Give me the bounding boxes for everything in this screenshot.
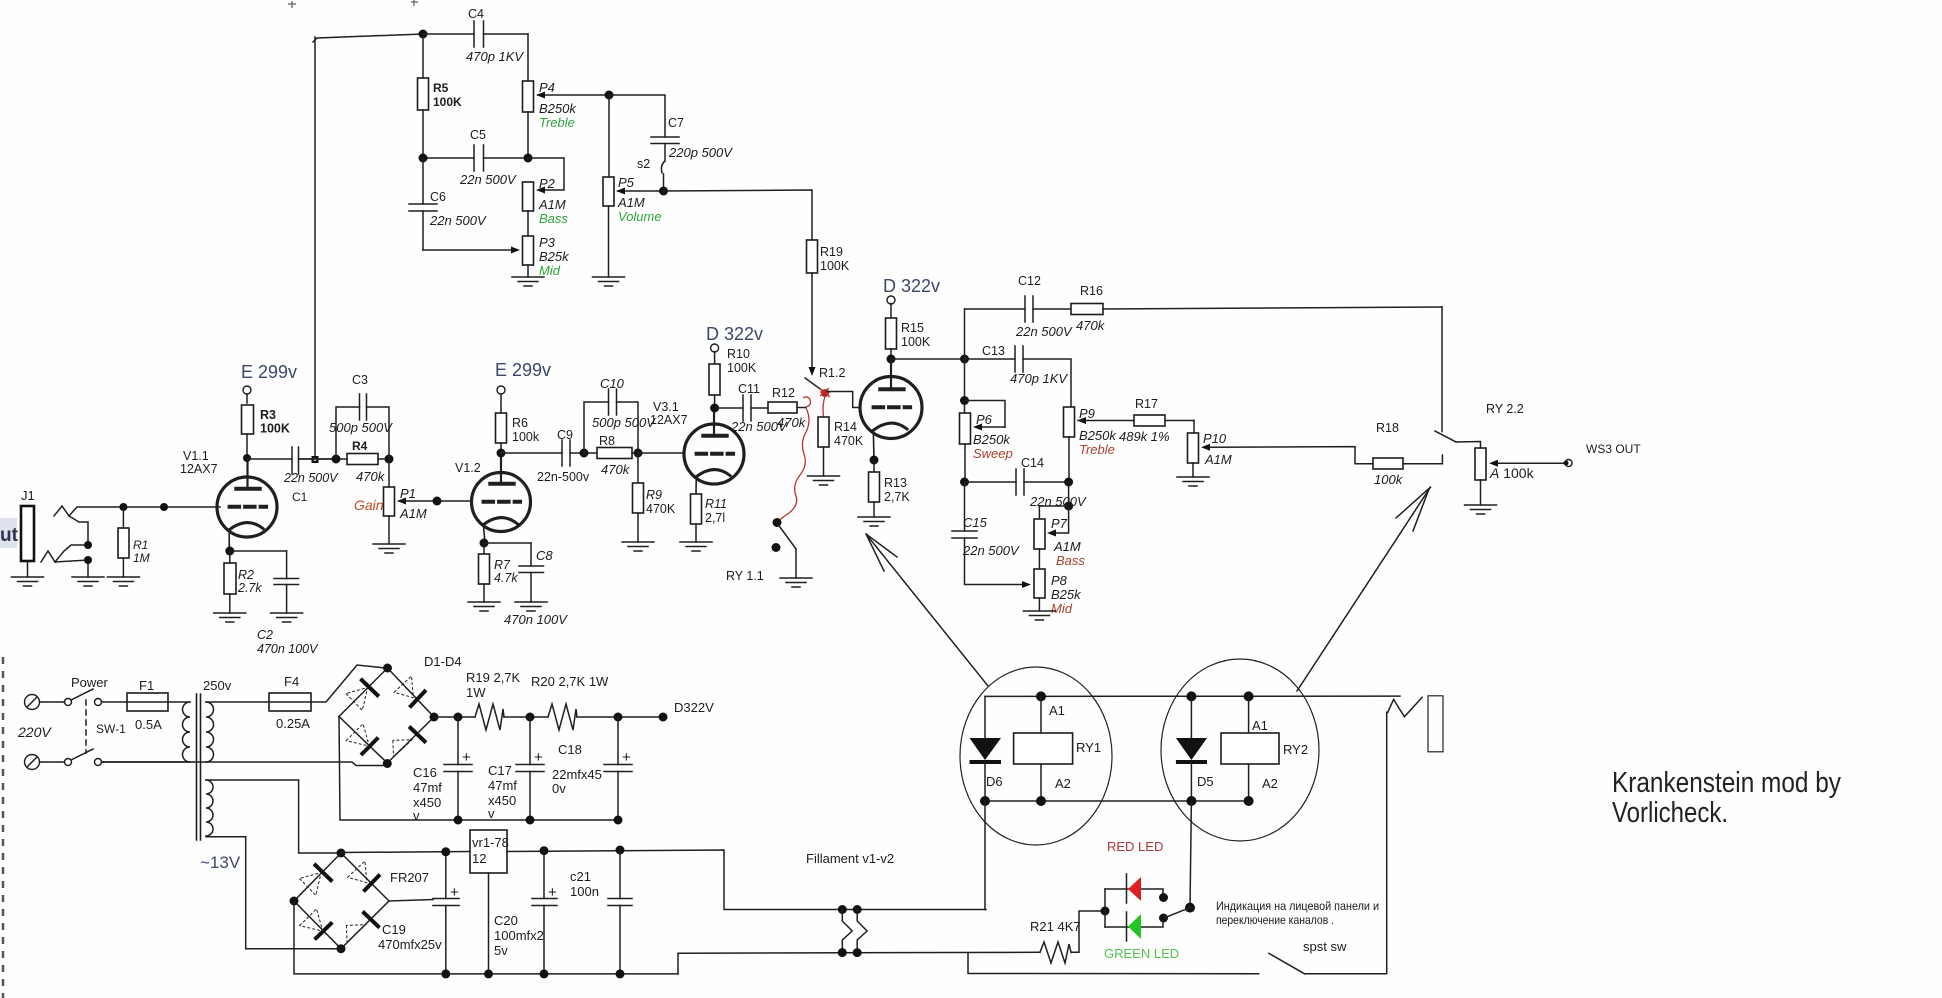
ground under P8 xyxy=(1023,611,1055,620)
svg-text:R13: R13 xyxy=(884,476,907,490)
wire D5 drop to led switch xyxy=(1190,801,1191,908)
svg-text:5v: 5v xyxy=(494,943,508,958)
node RY1 coil bottom xyxy=(1036,796,1046,806)
svg-text:+: + xyxy=(622,749,631,766)
node FR207 top xyxy=(337,849,346,858)
annotation arrow to RY2.2 xyxy=(1297,487,1430,691)
node R4 right xyxy=(385,455,394,464)
wire mains return to bridge xyxy=(102,762,385,766)
connector filament left xyxy=(838,905,852,957)
svg-text:P7: P7 xyxy=(1051,516,1068,531)
triode V3.1 xyxy=(684,408,744,494)
title Krankenstein xyxy=(1612,767,1841,829)
annotation arrow to V2.1 xyxy=(866,534,988,686)
svg-text:B25k: B25k xyxy=(539,249,570,264)
terminal D322v V3.1 xyxy=(711,344,719,364)
svg-text:B25k: B25k xyxy=(1051,587,1082,602)
node D6 bottom xyxy=(980,796,990,806)
node C14 right xyxy=(1064,478,1073,487)
svg-text:P6: P6 xyxy=(976,412,993,427)
ground under R14 xyxy=(808,476,840,485)
node P5 top xyxy=(605,91,614,100)
svg-text:F4: F4 xyxy=(284,674,299,689)
svg-text:Power: Power xyxy=(71,675,109,690)
label V1.1 12AX7 xyxy=(180,449,218,476)
ground under R9 xyxy=(622,542,654,551)
wire C1 to R4 xyxy=(299,458,348,460)
ground under A100k xyxy=(1465,505,1497,514)
resistor R10 xyxy=(709,347,757,408)
ellipse RY2 xyxy=(1161,659,1319,841)
wire R19 to switch xyxy=(809,273,816,376)
node C19 top xyxy=(441,847,450,856)
resistor R19 2,7K zigzag xyxy=(466,670,548,730)
svg-text:spst sw: spst sw xyxy=(1303,939,1347,954)
svg-text:C5: C5 xyxy=(470,128,486,142)
wire mid vertical xyxy=(964,309,966,413)
led RED xyxy=(1127,874,1142,903)
node C20 top xyxy=(540,846,549,855)
svg-text:Bass: Bass xyxy=(1056,553,1085,568)
ellipse RY1 xyxy=(960,667,1112,845)
node P7 branch xyxy=(1064,502,1073,511)
node bridge bottom xyxy=(383,759,392,768)
ground under C8 xyxy=(515,602,547,611)
svg-text:V3.1: V3.1 xyxy=(653,400,679,414)
svg-text:P4: P4 xyxy=(539,80,555,95)
switch s2 xyxy=(637,157,665,191)
wire 13v dc rail xyxy=(341,852,470,853)
svg-text:WS3 OUT: WS3 OUT xyxy=(1586,442,1641,456)
diode D6 xyxy=(970,696,1003,801)
svg-text:C17: C17 xyxy=(488,763,512,778)
svg-text:47mf: 47mf xyxy=(413,780,442,795)
svg-text:P8: P8 xyxy=(1051,573,1068,588)
ground under R11 xyxy=(680,542,712,551)
node C17 bottom xyxy=(526,816,535,825)
resistor R8 xyxy=(584,434,638,477)
svg-text:+: + xyxy=(534,749,543,766)
terminal WS3 OUT xyxy=(1564,442,1642,467)
diode FR207 a (top-left) xyxy=(300,864,333,896)
wire volume to R19 xyxy=(664,190,813,240)
ground under P10 xyxy=(1177,477,1209,486)
svg-text:D5: D5 xyxy=(1197,774,1214,789)
node C5 right xyxy=(524,154,533,163)
wire switch to V2.1 grid xyxy=(827,392,860,408)
resistor R13 xyxy=(869,460,911,517)
node FR207 left xyxy=(290,897,299,906)
svg-text:R4: R4 xyxy=(352,439,368,453)
capacitor C5 xyxy=(423,128,528,187)
node grid wire xyxy=(160,503,168,511)
node C4 left xyxy=(419,30,428,39)
resistor R6 xyxy=(496,413,540,453)
svg-text:C7: C7 xyxy=(668,116,684,130)
svg-text:Volume: Volume xyxy=(618,209,662,224)
ground under R7 xyxy=(468,602,500,611)
potentiometer P5 xyxy=(603,175,664,277)
wire relay top rail xyxy=(985,695,1400,697)
svg-text:C9: C9 xyxy=(557,428,573,442)
node volume out xyxy=(659,187,668,196)
page edge dashes xyxy=(2,657,5,998)
capacitor C9 xyxy=(501,428,590,484)
svg-text:A1M: A1M xyxy=(399,506,427,521)
svg-text:ut: ut xyxy=(0,525,19,546)
wire bridge minus down xyxy=(339,717,618,821)
node R4 left xyxy=(332,455,341,464)
node RY1 coil top xyxy=(1036,691,1046,701)
capacitor C17 xyxy=(488,717,544,821)
node C20 bottom xyxy=(540,969,549,978)
node V1.1 anode xyxy=(243,454,251,462)
red link to R14 xyxy=(823,396,825,417)
node RY2 coil bottom xyxy=(1244,796,1254,806)
jack J1 xyxy=(21,488,35,577)
wire 13v top lead xyxy=(206,780,339,853)
svg-text:P3: P3 xyxy=(539,235,556,250)
svg-text:C18: C18 xyxy=(558,742,582,757)
svg-text:C3: C3 xyxy=(352,373,368,387)
diode D1 (top-left) xyxy=(346,679,379,711)
node FR207 bottom xyxy=(337,944,346,953)
svg-text:P1: P1 xyxy=(400,486,416,501)
svg-text:470p 1KV: 470p 1KV xyxy=(1010,371,1068,386)
svg-text:Fillament v1-v2: Fillament v1-v2 xyxy=(806,851,894,866)
node bridge plus xyxy=(430,713,439,722)
svg-text:C2: C2 xyxy=(257,628,273,642)
svg-text:470k: 470k xyxy=(777,415,807,430)
svg-text:A2: A2 xyxy=(1055,776,1071,791)
resistor R18 xyxy=(1373,421,1442,487)
terminal D322v V2.1 xyxy=(887,296,895,318)
switch RY1.1 xyxy=(726,518,796,583)
svg-text:R2: R2 xyxy=(238,568,254,582)
svg-text:V1.1: V1.1 xyxy=(183,449,209,463)
jack sleeve contact xyxy=(41,545,88,577)
svg-text:0.25A: 0.25A xyxy=(276,716,310,731)
terminal E299v V1.1 xyxy=(243,386,251,403)
svg-text:c21: c21 xyxy=(570,869,591,884)
svg-text:470K: 470K xyxy=(834,434,864,448)
transformer secondary 250v winding xyxy=(206,702,214,762)
svg-text:FR207: FR207 xyxy=(390,870,429,885)
capacitor C16 xyxy=(413,717,472,823)
svg-text:22n 500V: 22n 500V xyxy=(283,471,339,485)
switch SW-1 bottom xyxy=(65,749,191,766)
diode FR207 c (bottom-left) xyxy=(300,909,333,940)
jack tip contact xyxy=(54,506,123,545)
ground under R2 xyxy=(214,613,246,622)
svg-text:47mf: 47mf xyxy=(488,778,517,793)
potentiometer P2 xyxy=(523,158,569,226)
svg-text:+: + xyxy=(548,884,557,901)
svg-text:v: v xyxy=(488,806,495,821)
led GREEN xyxy=(1127,912,1142,941)
resistor R17 xyxy=(1078,397,1194,444)
svg-text:C8: C8 xyxy=(536,548,553,563)
svg-text:500p 500V: 500p 500V xyxy=(329,420,393,435)
terminal mains L xyxy=(25,695,65,710)
diode D4 (bottom-right) xyxy=(393,727,426,758)
switch R1.2 arm xyxy=(805,378,823,391)
capacitor C20 xyxy=(494,851,557,974)
svg-text:C1: C1 xyxy=(292,490,308,504)
wire feedback vertical xyxy=(314,37,316,456)
svg-text:R19: R19 xyxy=(820,245,843,259)
resistor R1 xyxy=(118,507,150,577)
switch spst xyxy=(1269,712,1387,974)
capacitor C4 xyxy=(423,7,528,64)
node C16 top xyxy=(454,713,463,722)
wire RY1 rail drop xyxy=(984,801,986,910)
svg-text:470n 100V: 470n 100V xyxy=(504,612,568,627)
svg-text:470mfx25v: 470mfx25v xyxy=(378,937,442,952)
capacitor C6 xyxy=(409,158,487,250)
ground under jack contacts xyxy=(72,577,104,586)
diode D5 xyxy=(1176,696,1214,801)
svg-text:J1: J1 xyxy=(21,488,35,503)
node vertical top row xyxy=(960,355,969,364)
wire heater return rail xyxy=(678,952,1040,974)
capacitor c21 xyxy=(570,850,632,974)
capacitor C8 xyxy=(484,543,568,627)
svg-text:+: + xyxy=(462,749,471,766)
svg-text:D1-D4: D1-D4 xyxy=(424,654,462,669)
svg-text:B250k: B250k xyxy=(973,432,1011,447)
svg-text:A2: A2 xyxy=(1262,776,1278,791)
switch SW-1 link xyxy=(85,700,87,753)
capacitor C18 xyxy=(552,717,632,820)
svg-text:220p 500V: 220p 500V xyxy=(668,145,733,160)
svg-text:переключение каналов .: переключение каналов . xyxy=(1216,913,1334,927)
capacitor C7 xyxy=(651,116,733,161)
node D5 top xyxy=(1186,691,1196,701)
wire FR207 minus down xyxy=(294,901,678,974)
node bridge top xyxy=(383,664,392,673)
triode V1.2 xyxy=(472,453,531,543)
relay coil RY1 xyxy=(1014,696,1101,801)
wire node to C7 xyxy=(609,95,665,137)
ground under R13 xyxy=(858,517,890,526)
potentiometer P3 xyxy=(423,211,570,278)
red cluster node xyxy=(820,388,831,397)
potentiometer P9 xyxy=(1064,406,1118,482)
svg-text:A1M: A1M xyxy=(1204,452,1232,467)
node C9 right xyxy=(580,449,589,458)
svg-text:RY 1.1: RY 1.1 xyxy=(726,569,764,583)
node C16 bottom xyxy=(454,816,463,825)
triode V2.1 xyxy=(860,359,922,460)
terminal E299v V1.2 xyxy=(497,386,505,413)
node V3.1 anode xyxy=(710,404,719,413)
wire relay bottom rail RY1 xyxy=(985,800,1249,802)
svg-text:RY2: RY2 xyxy=(1283,742,1308,757)
resistor R3 xyxy=(242,405,290,458)
bridge D1-D4 frame xyxy=(339,668,434,763)
resistor R12 xyxy=(768,386,807,430)
diode FR207 d (bottom-right) xyxy=(346,912,379,943)
wire input row xyxy=(123,506,220,508)
svg-text:250v: 250v xyxy=(203,678,232,693)
node D5 bottom xyxy=(1186,796,1196,806)
svg-text:P9: P9 xyxy=(1079,406,1095,421)
svg-text:GREEN LED: GREEN LED xyxy=(1104,946,1179,961)
svg-text:RED LED: RED LED xyxy=(1107,839,1163,854)
wire anode row to vertical xyxy=(891,358,965,360)
switch RY2.2 xyxy=(1435,307,1524,448)
svg-text:Mid: Mid xyxy=(1051,601,1073,616)
ground under RY1.1 xyxy=(780,578,812,587)
svg-text:P2: P2 xyxy=(539,176,556,191)
svg-text:22n 500V: 22n 500V xyxy=(459,172,517,187)
node C14 left xyxy=(960,478,969,487)
potentiometer A100k xyxy=(1475,448,1564,505)
wire top feedback horizontal xyxy=(313,34,423,42)
svg-text:R10: R10 xyxy=(727,347,750,361)
svg-text:v: v xyxy=(413,808,420,823)
svg-text:1M: 1M xyxy=(133,551,150,565)
svg-text:A1M: A1M xyxy=(1053,539,1081,554)
potentiometer P6 xyxy=(960,401,1013,483)
svg-text:Treble: Treble xyxy=(1079,442,1115,457)
svg-text:2.7k: 2.7k xyxy=(237,581,262,595)
svg-text:R1.2: R1.2 xyxy=(819,366,845,380)
node V2.1 anode xyxy=(887,355,896,364)
svg-text:R8: R8 xyxy=(599,434,615,448)
led box wires xyxy=(1105,889,1163,927)
svg-text:A 100k: A 100k xyxy=(1489,465,1535,481)
svg-text:100K: 100K xyxy=(260,422,290,436)
node V1.2 anode xyxy=(497,449,506,458)
capacitor C13 xyxy=(965,344,1072,407)
capacitor C12 xyxy=(965,274,1073,339)
svg-text:470p 1KV: 470p 1KV xyxy=(466,49,524,64)
diode D2 (top-right) xyxy=(394,676,426,708)
svg-text:22n 500V: 22n 500V xyxy=(1015,324,1073,339)
svg-text:Krankenstein mod by: Krankenstein mod by xyxy=(1612,767,1841,799)
capacitor C11 xyxy=(715,382,788,434)
svg-text:Treble: Treble xyxy=(539,115,575,130)
svg-text:22n 500V: 22n 500V xyxy=(429,213,487,228)
wire P10 wiper to R18 xyxy=(1210,447,1373,464)
capacitor C14 xyxy=(965,456,1087,509)
node jack-sleeve A xyxy=(84,541,92,549)
svg-text:R1: R1 xyxy=(133,538,148,552)
svg-text:12AX7: 12AX7 xyxy=(650,413,688,427)
terminal mains N xyxy=(25,755,65,770)
resistor R21 zigzag xyxy=(1030,911,1105,963)
svg-text:RY1: RY1 xyxy=(1076,740,1101,755)
svg-text:100K: 100K xyxy=(820,259,850,273)
terminal D322V out xyxy=(659,700,715,722)
node R21 to leds xyxy=(1101,907,1110,916)
red curl at R12 out xyxy=(803,397,811,407)
wire 250v to F4 xyxy=(206,701,269,703)
switch SW-1 top xyxy=(64,689,127,706)
node red branch xyxy=(1159,893,1168,902)
potentiometer P8 xyxy=(1034,549,1082,616)
node V2.1 cathode xyxy=(870,456,879,465)
relay coil RY2 xyxy=(1221,696,1308,801)
svg-text:2,7l: 2,7l xyxy=(705,511,725,525)
svg-text:D6: D6 xyxy=(986,774,1003,789)
resistor R4 xyxy=(347,439,389,484)
label ut (clipped Input label) xyxy=(0,518,19,548)
node jack-sleeve B xyxy=(84,556,92,564)
ground under P1 xyxy=(373,544,405,553)
svg-text:Gain: Gain xyxy=(354,497,384,513)
svg-text:100k: 100k xyxy=(1374,472,1404,487)
node c21 bottom xyxy=(616,969,625,978)
capacitor C1 xyxy=(283,447,339,504)
svg-text:2,7K: 2,7K xyxy=(884,490,910,504)
svg-text:D 322v: D 322v xyxy=(883,276,940,296)
ground under C2 xyxy=(271,613,303,622)
svg-text:489k 1%: 489k 1% xyxy=(1119,429,1170,444)
node green branch xyxy=(1159,914,1168,923)
wire FR207 plus to C19 xyxy=(389,900,433,902)
transformer secondary 13v winding xyxy=(206,780,213,836)
svg-text:B250k: B250k xyxy=(539,101,577,116)
potentiometer P7 xyxy=(1034,482,1085,568)
svg-text:s2: s2 xyxy=(637,157,650,171)
svg-text:RY 2.2: RY 2.2 xyxy=(1486,402,1524,416)
svg-text:100K: 100K xyxy=(727,361,757,375)
node vr1 gnd xyxy=(484,969,493,978)
fuse F4 xyxy=(269,674,311,731)
wire heater dc rail xyxy=(507,850,986,910)
resistor R19 (100K) xyxy=(807,240,850,273)
svg-text:R11: R11 xyxy=(705,497,727,511)
wire return to spst xyxy=(968,953,1259,974)
resistor R14 xyxy=(818,417,864,476)
svg-text:A1: A1 xyxy=(1252,718,1268,733)
resistor R11 xyxy=(691,494,728,542)
svg-text:C15: C15 xyxy=(963,515,988,530)
svg-text:V1.2: V1.2 xyxy=(455,461,481,475)
svg-text:100mfx2: 100mfx2 xyxy=(494,928,544,943)
svg-text:22n 500V: 22n 500V xyxy=(962,543,1020,558)
diode D3 (bottom-left) xyxy=(346,724,378,755)
ground under R1 xyxy=(107,577,139,586)
transformer primary winding xyxy=(183,702,191,762)
red wire down to RY1.1 xyxy=(777,408,809,522)
svg-text:4.7k: 4.7k xyxy=(494,571,518,585)
svg-text:C4: C4 xyxy=(468,7,484,21)
svg-text:R17: R17 xyxy=(1135,397,1158,411)
svg-text:P10: P10 xyxy=(1203,431,1227,446)
wire grid V3.1 xyxy=(638,452,684,454)
svg-text:F1: F1 xyxy=(139,678,154,693)
svg-text:22n-500v: 22n-500v xyxy=(537,470,590,484)
svg-text:C14: C14 xyxy=(1021,456,1044,470)
node C19 bottom xyxy=(441,969,450,978)
bridge FR207 frame xyxy=(294,853,389,949)
svg-text:E 299v: E 299v xyxy=(495,360,551,380)
wire P4 wiper xyxy=(536,92,609,99)
node V1.1 cathode xyxy=(225,547,234,556)
svg-text:100K: 100K xyxy=(901,335,931,349)
svg-text:470n 100V: 470n 100V xyxy=(257,642,319,656)
ground under P3 xyxy=(512,277,544,286)
svg-text:Sweep: Sweep xyxy=(973,446,1013,461)
capacitor C3 xyxy=(329,373,393,459)
resistor R2 xyxy=(224,551,262,613)
capacitor C15 xyxy=(952,482,1031,588)
svg-text:1W: 1W xyxy=(466,685,486,700)
